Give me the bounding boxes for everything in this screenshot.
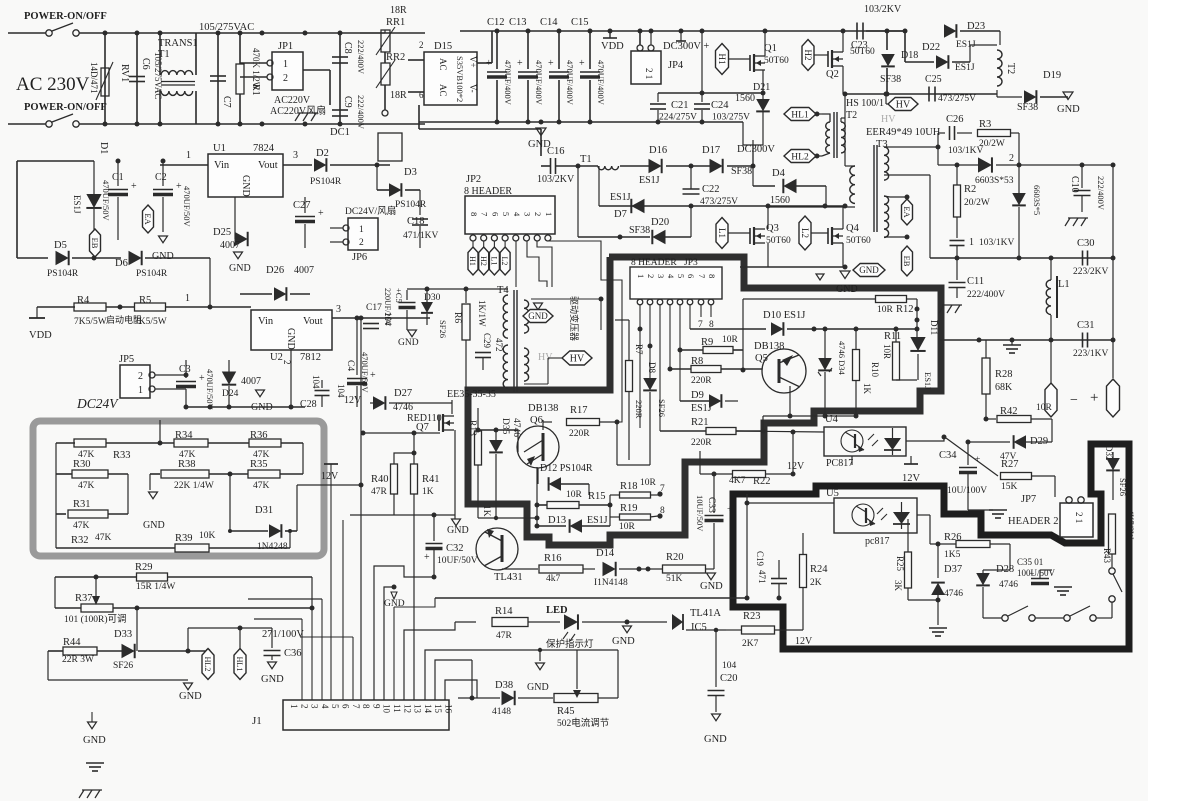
svg-text:C32: C32 — [446, 543, 464, 554]
svg-text:D21: D21 — [753, 82, 770, 93]
svg-text:14: 14 — [423, 704, 433, 714]
svg-text:GND: GND — [398, 338, 419, 348]
svg-text:D14: D14 — [596, 548, 615, 559]
svg-text:7824: 7824 — [253, 143, 275, 154]
svg-text:Vin: Vin — [214, 160, 230, 171]
svg-text:TL41A: TL41A — [690, 608, 721, 619]
svg-text:12V: 12V — [344, 395, 362, 406]
svg-text:4746: 4746 — [393, 402, 413, 413]
svg-text:S35VB100*2: S35VB100*2 — [455, 56, 465, 102]
svg-text:10R: 10R — [640, 478, 657, 488]
svg-text:470UF/400V: 470UF/400V — [503, 60, 513, 106]
svg-text:D5: D5 — [54, 240, 67, 251]
svg-text:4: 4 — [512, 212, 522, 217]
svg-text:3K: 3K — [893, 580, 903, 592]
svg-text:C22: C22 — [702, 184, 720, 195]
svg-text:R2: R2 — [964, 184, 976, 195]
svg-text:10R: 10R — [619, 522, 636, 532]
svg-text:D2: D2 — [316, 148, 329, 159]
svg-text:47R: 47R — [496, 631, 513, 641]
svg-text:驱动变压器: 驱动变压器 — [569, 296, 580, 341]
svg-text:U4: U4 — [825, 414, 839, 425]
svg-text:保护指示灯: 保护指示灯 — [546, 638, 594, 650]
svg-text:AC: AC — [438, 58, 448, 71]
svg-text:ES1J: ES1J — [639, 175, 660, 186]
svg-text:103/1KV: 103/1KV — [979, 238, 1015, 248]
svg-text:68K: 68K — [995, 382, 1013, 393]
svg-text:R26: R26 — [944, 532, 962, 543]
svg-text:D1: D1 — [98, 142, 109, 154]
svg-text:TL431: TL431 — [494, 572, 523, 583]
svg-text:GND: GND — [447, 525, 469, 536]
svg-text:103/275V: 103/275V — [712, 113, 750, 123]
svg-text:R28: R28 — [995, 369, 1013, 380]
svg-text:HV: HV — [896, 100, 911, 111]
svg-text:1K/1W: 1K/1W — [477, 300, 487, 327]
svg-text:Q1: Q1 — [764, 43, 777, 54]
svg-text:AC: AC — [438, 84, 448, 97]
svg-text:472: 472 — [494, 338, 504, 352]
svg-text:AC 230V: AC 230V — [16, 74, 90, 95]
svg-text:470UF/400V: 470UF/400V — [565, 60, 575, 106]
svg-text:D8: D8 — [647, 362, 657, 373]
svg-text:271/100V: 271/100V — [262, 629, 304, 640]
svg-text:D31: D31 — [255, 505, 273, 516]
svg-text:6: 6 — [686, 274, 696, 278]
svg-text:D19: D19 — [1043, 70, 1061, 81]
svg-text:6: 6 — [341, 704, 351, 709]
svg-text:12V: 12V — [321, 471, 339, 482]
svg-text:10UF/50V: 10UF/50V — [695, 495, 705, 532]
svg-text:8: 8 — [660, 506, 665, 516]
svg-text:D25: D25 — [213, 227, 231, 238]
svg-text:C2: C2 — [155, 172, 167, 183]
svg-text:D3: D3 — [404, 167, 417, 178]
svg-text:473/275V: 473/275V — [938, 94, 976, 104]
svg-text:1K5: 1K5 — [944, 550, 961, 560]
svg-text:2 1: 2 1 — [644, 68, 654, 79]
svg-text:RR1: RR1 — [386, 17, 405, 28]
svg-text:ES1J: ES1J — [691, 403, 712, 414]
svg-text:502电流调节: 502电流调节 — [557, 717, 609, 729]
svg-text:R4: R4 — [77, 295, 90, 306]
svg-text:C18: C18 — [407, 216, 425, 227]
svg-text:GND: GND — [83, 735, 106, 746]
svg-text:D13: D13 — [548, 515, 566, 526]
svg-text:D38: D38 — [495, 680, 513, 691]
svg-text:+: + — [727, 505, 732, 515]
svg-text:C13: C13 — [509, 17, 527, 28]
svg-text:AC220V: AC220V — [274, 95, 311, 106]
svg-text:R29: R29 — [135, 562, 153, 573]
svg-text:SF38: SF38 — [629, 225, 650, 236]
svg-text:GND: GND — [859, 265, 879, 275]
svg-text:7: 7 — [697, 274, 707, 278]
svg-text:473/275V: 473/275V — [700, 197, 738, 207]
svg-text:10R: 10R — [882, 344, 892, 359]
svg-text:R31: R31 — [73, 499, 91, 510]
svg-text:R39: R39 — [175, 533, 193, 544]
svg-text:1: 1 — [544, 212, 554, 216]
svg-text:18R: 18R — [390, 90, 407, 101]
svg-text:101 (100R)可调: 101 (100R)可调 — [64, 614, 127, 625]
svg-text:D22: D22 — [922, 42, 940, 53]
svg-text:C10: C10 — [1069, 176, 1080, 193]
svg-text:H2: H2 — [479, 256, 488, 266]
svg-text:1K: 1K — [862, 383, 872, 395]
svg-text:R41: R41 — [422, 474, 440, 485]
svg-text:−: − — [1070, 393, 1078, 408]
svg-text:2 1: 2 1 — [1074, 512, 1084, 523]
svg-text:1560: 1560 — [735, 93, 755, 104]
svg-text:Q7: Q7 — [416, 422, 429, 433]
svg-text:GND: GND — [285, 328, 296, 350]
svg-text:R23: R23 — [743, 611, 761, 622]
svg-text:D6: D6 — [115, 258, 128, 269]
svg-text:POWER-ON/OFF: POWER-ON/OFF — [24, 11, 107, 22]
svg-text:D7: D7 — [614, 209, 627, 220]
svg-text:4: 4 — [320, 704, 330, 709]
svg-text:1K: 1K — [422, 487, 434, 497]
svg-text:R18: R18 — [620, 481, 638, 492]
svg-text:7: 7 — [660, 484, 665, 494]
svg-text:R35: R35 — [250, 459, 268, 470]
svg-text:223/2KV: 223/2KV — [1073, 267, 1109, 277]
svg-text:5: 5 — [501, 212, 511, 216]
svg-text:C34: C34 — [939, 450, 957, 461]
svg-text:47K: 47K — [78, 481, 95, 491]
svg-text:H1: H1 — [468, 256, 477, 266]
svg-text:10R: 10R — [722, 335, 739, 345]
svg-text:8: 8 — [361, 704, 371, 709]
svg-text:R20: R20 — [666, 552, 684, 563]
svg-text:GND: GND — [229, 263, 251, 274]
svg-text:C20: C20 — [720, 673, 738, 684]
svg-text:10UF/50V: 10UF/50V — [437, 556, 478, 566]
svg-text:V-: V- — [468, 84, 478, 93]
svg-text:JP5: JP5 — [119, 354, 134, 365]
svg-text:1: 1 — [283, 59, 288, 70]
svg-text:10U/100V: 10U/100V — [947, 486, 987, 496]
svg-text:D37: D37 — [944, 564, 962, 575]
svg-text:6603S*5: 6603S*5 — [1032, 185, 1042, 215]
svg-text:C26: C26 — [946, 114, 964, 125]
svg-text:C21: C21 — [671, 100, 689, 111]
svg-text:220UF/25V: 220UF/25V — [383, 288, 392, 326]
svg-text:GND: GND — [240, 175, 251, 197]
svg-text:470UF/50V: 470UF/50V — [182, 186, 192, 227]
svg-text:470UF/400V: 470UF/400V — [596, 60, 606, 106]
svg-text:3: 3 — [523, 212, 533, 216]
svg-text:SF26: SF26 — [113, 661, 133, 671]
svg-text:L1: L1 — [717, 228, 727, 238]
svg-text:20/2W: 20/2W — [964, 198, 990, 208]
svg-text:R3: R3 — [979, 119, 991, 130]
svg-text:104: 104 — [722, 661, 737, 671]
svg-text:PS104R: PS104R — [310, 177, 342, 187]
svg-text:ES1J: ES1J — [610, 192, 631, 203]
svg-text:C28: C28 — [300, 399, 317, 410]
svg-text:4007: 4007 — [241, 376, 261, 387]
svg-text:+: + — [318, 208, 324, 219]
svg-text:HV: HV — [881, 114, 896, 125]
svg-text:C36: C36 — [284, 648, 302, 659]
svg-text:220R: 220R — [691, 438, 712, 448]
svg-text:J1: J1 — [252, 715, 262, 727]
svg-text:U1: U1 — [213, 143, 226, 154]
svg-text:H1: H1 — [717, 54, 727, 65]
svg-text:JP7: JP7 — [1021, 494, 1036, 505]
svg-text:IC5: IC5 — [691, 622, 707, 633]
svg-text:EB: EB — [902, 256, 912, 267]
svg-text:H2: H2 — [803, 50, 813, 61]
svg-text:3: 3 — [336, 304, 341, 315]
svg-text:+: + — [486, 58, 492, 69]
svg-text:12: 12 — [402, 704, 412, 713]
svg-text:15: 15 — [433, 704, 443, 714]
svg-text:+: + — [548, 58, 554, 69]
svg-text:pc817: pc817 — [865, 536, 889, 547]
svg-text:DC24V/风扇: DC24V/风扇 — [345, 205, 396, 217]
svg-text:DC1: DC1 — [330, 127, 350, 138]
svg-text:D12 PS104R: D12 PS104R — [540, 463, 593, 474]
svg-text:D10 ES1J: D10 ES1J — [763, 310, 805, 321]
svg-text:18R: 18R — [390, 5, 407, 16]
svg-text:C24: C24 — [711, 100, 729, 111]
svg-text:GND: GND — [261, 674, 284, 685]
svg-text:47K: 47K — [95, 533, 112, 543]
svg-text:DB138: DB138 — [528, 403, 558, 414]
svg-text:7812: 7812 — [300, 352, 321, 363]
svg-text:12V: 12V — [795, 636, 813, 647]
svg-text:R13: R13 — [467, 420, 477, 436]
svg-text:22R 3W: 22R 3W — [62, 655, 94, 665]
svg-text:C31: C31 — [1077, 320, 1095, 331]
svg-text:L1: L1 — [1058, 279, 1070, 290]
svg-text:2: 2 — [359, 238, 364, 248]
svg-text:3: 3 — [293, 150, 298, 161]
svg-text:SF26: SF26 — [438, 320, 448, 338]
svg-text:T2: T2 — [846, 110, 857, 121]
svg-text:C4: C4 — [345, 360, 355, 371]
svg-text:1K: 1K — [481, 505, 491, 517]
svg-text:D35: D35 — [500, 418, 510, 435]
svg-text:Q2: Q2 — [826, 69, 839, 80]
svg-text:R43: R43 — [1102, 548, 1112, 564]
svg-text:222/400V: 222/400V — [356, 95, 366, 130]
svg-text:103/2KV: 103/2KV — [864, 4, 902, 15]
svg-text:HL2: HL2 — [791, 152, 809, 162]
svg-text:R38: R38 — [178, 459, 196, 470]
svg-text:4746: 4746 — [944, 589, 963, 599]
svg-text:C14: C14 — [540, 17, 558, 28]
svg-text:Q4: Q4 — [846, 223, 860, 234]
svg-text:Vin: Vin — [258, 316, 274, 327]
svg-text:Vout: Vout — [258, 160, 278, 171]
svg-text:GND: GND — [700, 581, 723, 592]
svg-text:R6: R6 — [452, 312, 462, 323]
svg-text:220R: 220R — [691, 376, 712, 386]
svg-text:20/2W: 20/2W — [979, 139, 1005, 149]
svg-text:T2: T2 — [1005, 63, 1016, 74]
svg-text:R17: R17 — [570, 405, 588, 416]
svg-text:R21: R21 — [691, 417, 709, 428]
svg-text:2: 2 — [1009, 153, 1014, 164]
svg-text:15R 1/4W: 15R 1/4W — [136, 582, 175, 592]
svg-text:HL2: HL2 — [203, 657, 212, 672]
svg-text:+: + — [579, 58, 585, 69]
svg-text:2: 2 — [533, 212, 543, 216]
svg-text:R45: R45 — [557, 706, 575, 717]
svg-text:EA: EA — [902, 206, 912, 218]
svg-text:Q6: Q6 — [530, 415, 543, 426]
svg-text:PC817: PC817 — [826, 458, 853, 469]
svg-text:C12: C12 — [487, 17, 505, 28]
svg-text:7: 7 — [480, 212, 490, 216]
svg-text:16: 16 — [444, 704, 454, 714]
svg-text:ES1J: ES1J — [923, 372, 933, 390]
svg-text:15K: 15K — [1001, 482, 1018, 492]
svg-text:I1N4148: I1N4148 — [594, 578, 628, 588]
svg-text:VDD: VDD — [601, 41, 624, 52]
svg-text:C16: C16 — [547, 146, 565, 157]
svg-text:RV1: RV1 — [119, 64, 130, 82]
svg-text:C8: C8 — [342, 42, 353, 54]
svg-text:2: 2 — [646, 274, 656, 278]
svg-text:GND: GND — [384, 599, 405, 609]
svg-text:10K: 10K — [199, 531, 216, 541]
svg-text:GND: GND — [143, 520, 165, 531]
svg-text:+C5: +C5 — [394, 288, 404, 303]
svg-text:22K 1/4W: 22K 1/4W — [174, 481, 214, 491]
svg-text:104: 104 — [311, 375, 321, 389]
svg-text:JP1: JP1 — [278, 41, 293, 52]
svg-text:105/275VAC: 105/275VAC — [199, 22, 254, 33]
svg-text:10: 10 — [382, 704, 392, 714]
svg-text:R32: R32 — [71, 535, 89, 546]
svg-text:12V: 12V — [902, 473, 921, 484]
svg-text:220R: 220R — [634, 400, 644, 419]
svg-text:1: 1 — [186, 150, 191, 161]
svg-text:C29: C29 — [482, 333, 492, 349]
svg-text:6603S*53: 6603S*53 — [975, 176, 1014, 186]
svg-text:C19: C19 — [755, 551, 765, 567]
svg-text:11: 11 — [392, 704, 402, 713]
svg-text:7: 7 — [351, 704, 361, 709]
svg-text:JP4: JP4 — [668, 60, 684, 71]
svg-text:R5: R5 — [139, 295, 151, 306]
svg-text:4746 D34: 4746 D34 — [837, 341, 847, 376]
svg-text:HV: HV — [570, 354, 585, 365]
svg-text:D20: D20 — [651, 217, 669, 228]
svg-text:D11: D11 — [929, 320, 939, 335]
svg-text:D24: D24 — [222, 389, 239, 399]
svg-text:2: 2 — [283, 73, 288, 84]
svg-text:L1: L1 — [490, 257, 499, 266]
svg-text:GND: GND — [179, 691, 202, 702]
svg-text:5: 5 — [676, 274, 686, 278]
svg-text:TRANS1: TRANS1 — [158, 38, 198, 49]
svg-text:R11: R11 — [884, 331, 901, 342]
svg-text:R10: R10 — [870, 362, 880, 378]
svg-text:R19: R19 — [620, 503, 638, 514]
svg-text:GND: GND — [704, 734, 727, 745]
svg-text:1: 1 — [185, 293, 190, 304]
svg-text:50T60: 50T60 — [846, 236, 871, 246]
svg-text:VDD: VDD — [29, 330, 52, 341]
svg-text:C25: C25 — [925, 74, 942, 85]
svg-text:1: 1 — [289, 704, 299, 709]
svg-text:JP2: JP2 — [466, 174, 481, 185]
svg-text:DB138: DB138 — [754, 341, 784, 352]
svg-text:GND: GND — [152, 251, 174, 262]
svg-text:SF38: SF38 — [731, 166, 752, 177]
svg-text:R12: R12 — [896, 304, 914, 315]
svg-text:47K: 47K — [253, 481, 270, 491]
svg-text:223/1KV: 223/1KV — [1073, 349, 1109, 359]
svg-text:4007: 4007 — [294, 265, 314, 276]
svg-text:3: 3 — [656, 274, 666, 278]
svg-text:+: + — [176, 181, 182, 192]
svg-text:L2: L2 — [800, 228, 810, 238]
svg-text:HS 100/1: HS 100/1 — [846, 98, 884, 109]
svg-text:R16: R16 — [544, 553, 562, 564]
svg-text:ES1J: ES1J — [587, 515, 608, 526]
svg-text:C3: C3 — [179, 364, 191, 375]
svg-text:PS104R: PS104R — [136, 269, 168, 279]
svg-text:+: + — [424, 552, 430, 563]
svg-text:4k7: 4k7 — [546, 574, 561, 584]
svg-text:470UF/400V: 470UF/400V — [534, 60, 544, 106]
svg-text:4K7/3W: 4K7/3W — [1126, 510, 1136, 539]
svg-text:HL1: HL1 — [235, 657, 244, 672]
svg-text:47K: 47K — [73, 521, 90, 531]
svg-text:C1: C1 — [112, 172, 124, 183]
svg-text:4746: 4746 — [999, 580, 1018, 590]
svg-text:SF38: SF38 — [880, 74, 901, 85]
svg-text:HL1: HL1 — [791, 110, 809, 120]
svg-text:103/2KV: 103/2KV — [537, 174, 575, 185]
svg-text:8: 8 — [469, 212, 479, 216]
svg-text:14D/471: 14D/471 — [89, 62, 99, 94]
svg-text:R44: R44 — [63, 637, 81, 648]
svg-text:1: 1 — [359, 225, 364, 235]
svg-text:EB: EB — [90, 238, 100, 249]
svg-text:C7: C7 — [221, 96, 232, 108]
svg-text:C27: C27 — [293, 200, 311, 211]
svg-text:SF26: SF26 — [1118, 478, 1128, 496]
svg-text:2K7: 2K7 — [742, 639, 759, 649]
svg-text:51K: 51K — [666, 574, 683, 584]
svg-text:R30: R30 — [73, 459, 91, 470]
svg-text:10R: 10R — [1036, 403, 1053, 413]
svg-text:U2: U2 — [270, 352, 283, 363]
svg-text:12V: 12V — [787, 461, 805, 472]
svg-text:1: 1 — [636, 274, 646, 278]
svg-text:222/400V: 222/400V — [967, 290, 1005, 300]
svg-text:470K 1/2W: 470K 1/2W — [251, 48, 261, 91]
svg-text:1N4248: 1N4248 — [257, 542, 288, 552]
svg-text:ES1J: ES1J — [955, 63, 975, 73]
svg-text:D4: D4 — [772, 168, 786, 179]
svg-text:1: 1 — [138, 385, 143, 396]
svg-text:R27: R27 — [1001, 459, 1019, 470]
svg-text:POWER-ON/OFF: POWER-ON/OFF — [24, 102, 107, 113]
svg-text:470UF/50V: 470UF/50V — [205, 369, 215, 410]
svg-text:DC24V: DC24V — [76, 396, 119, 411]
svg-text:GND: GND — [527, 682, 549, 693]
svg-text:4007: 4007 — [220, 240, 240, 251]
